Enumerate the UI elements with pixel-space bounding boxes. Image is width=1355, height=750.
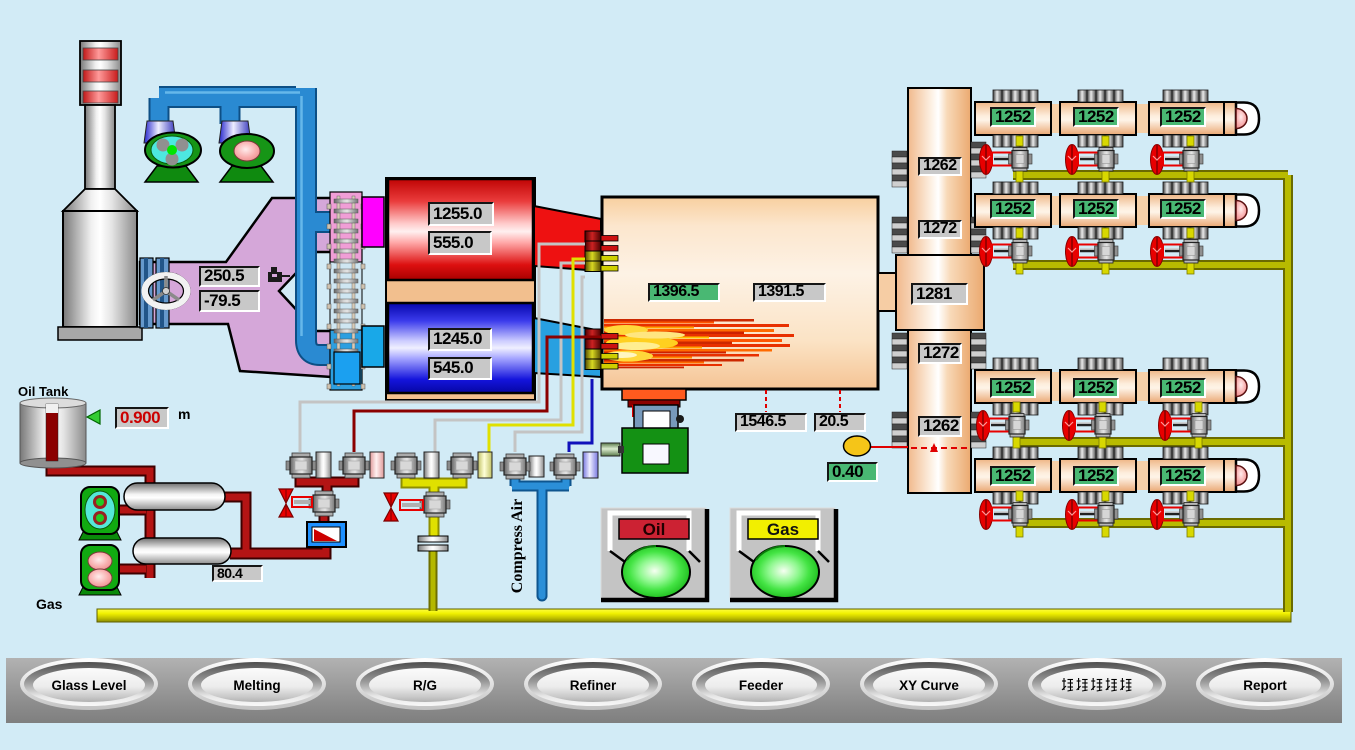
svg-text:Oil: Oil bbox=[643, 520, 666, 539]
svg-text:Gas: Gas bbox=[767, 520, 799, 539]
